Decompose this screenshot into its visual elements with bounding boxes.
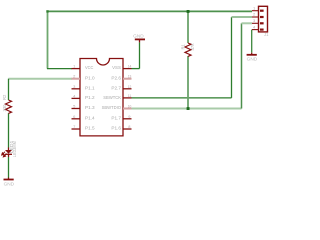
svg-text:GND: GND xyxy=(133,34,144,39)
svg-text:P1.3: P1.3 xyxy=(85,105,95,111)
svg-text:11: 11 xyxy=(128,93,132,98)
svg-text:7: 7 xyxy=(73,124,76,129)
svg-text:GND: GND xyxy=(247,57,258,62)
svg-text:14: 14 xyxy=(128,64,132,69)
svg-text:13: 13 xyxy=(128,74,132,79)
svg-text:4: 4 xyxy=(253,24,256,29)
svg-text:3: 3 xyxy=(253,18,256,23)
svg-text:LED3MM: LED3MM xyxy=(12,141,17,157)
svg-text:330: 330 xyxy=(2,104,7,112)
svg-text:P1.0: P1.0 xyxy=(85,75,95,81)
svg-text:10: 10 xyxy=(128,104,132,109)
svg-text:P2.7: P2.7 xyxy=(111,85,121,91)
svg-text:P1.1: P1.1 xyxy=(85,85,95,91)
svg-text:VCC: VCC xyxy=(85,65,94,71)
svg-text:J1: J1 xyxy=(264,32,269,37)
svg-text:SBWTDIO: SBWTDIO xyxy=(102,105,122,111)
svg-text:2: 2 xyxy=(253,12,256,17)
svg-text:5: 5 xyxy=(73,104,76,109)
svg-text:R2: R2 xyxy=(2,94,7,100)
svg-text:8: 8 xyxy=(128,124,131,129)
svg-text:R1: R1 xyxy=(181,43,186,49)
svg-text:P2.6: P2.6 xyxy=(111,75,121,81)
svg-text:1: 1 xyxy=(253,5,256,10)
svg-text:P1.5: P1.5 xyxy=(85,126,95,132)
svg-text:6: 6 xyxy=(73,114,76,119)
svg-text:9: 9 xyxy=(128,114,131,119)
svg-text:1: 1 xyxy=(73,64,76,69)
svg-text:SBWTCK: SBWTCK xyxy=(103,95,121,101)
svg-text:P1.7: P1.7 xyxy=(111,115,121,121)
svg-text:12: 12 xyxy=(128,84,132,89)
svg-text:3: 3 xyxy=(73,84,76,89)
svg-text:VSS: VSS xyxy=(112,65,121,71)
svg-text:P1.4: P1.4 xyxy=(85,115,95,121)
svg-text:P1.2: P1.2 xyxy=(85,95,95,101)
svg-text:4: 4 xyxy=(73,93,76,98)
svg-text:GND: GND xyxy=(4,181,15,186)
svg-text:P1.6: P1.6 xyxy=(111,126,121,132)
svg-text:47k: 47k xyxy=(190,43,195,51)
